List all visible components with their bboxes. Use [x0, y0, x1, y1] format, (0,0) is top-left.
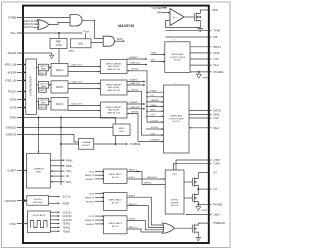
svg-text:BLANK3: BLANK3 — [86, 223, 95, 226]
box 4-LEVEL DECODE — [27, 196, 49, 206]
svg-text:DL2: DL2 — [214, 126, 220, 130]
wire FAULT2 out — [127, 206, 163, 228]
svg-text:OUTPUT DRIVE: OUTPUT DRIVE — [168, 118, 184, 120]
wire CLOCK in — [147, 121, 164, 123]
wire DACOUT2 — [68, 83, 100, 85]
wire TARGET2 in — [95, 197, 104, 199]
node junction on PLL wire — [58, 32, 60, 34]
box REF generator — [50, 39, 67, 49]
svg-text:CLOCK1: CLOCK1 — [63, 212, 73, 214]
svg-text:OUTPUT DRIVE: OUTPUT DRIVE — [170, 57, 186, 59]
svg-text:BLOCK: BLOCK — [173, 121, 181, 123]
svg-text:FB: FB — [214, 35, 218, 39]
svg-text:BLANK3: BLANK3 — [130, 101, 139, 104]
svg-text:DXP: DXP — [151, 60, 156, 62]
pin PGND1 — [190, 71, 212, 73]
wire RGE3 out — [127, 221, 163, 230]
pin THM — [166, 29, 212, 31]
wire REF box down to DAC1 — [58, 49, 60, 64]
ground M0 source — [197, 28, 203, 30]
svg-text:PLL: PLL — [11, 31, 17, 35]
wire DXP_ in — [51, 181, 65, 183]
svg-text:IN: IN — [214, 171, 217, 175]
svg-text:RGE2: RGE2 — [129, 195, 136, 197]
svg-text:AGND: AGND — [7, 51, 17, 55]
svg-text:BLANK2: BLANK2 — [86, 200, 95, 203]
box DAC3 — [51, 98, 68, 110]
svg-text:TMS: TMS — [10, 116, 16, 120]
svg-text:RGE3: RGE3 — [129, 219, 136, 221]
svg-text:SMPS2 TARGET: SMPS2 TARGET — [106, 83, 123, 86]
svg-text:DAC3: DAC3 — [56, 102, 63, 106]
svg-text:ILIMIT: ILIMIT — [7, 169, 16, 173]
svg-text:T(ON)2: T(ON)2 — [63, 228, 71, 230]
svg-text:ILIM: ILIM — [151, 133, 155, 135]
svg-text:TARGET: TARGET — [151, 99, 160, 102]
svg-text:LBO: LBO — [214, 213, 221, 217]
wire T-ANLG(3) out — [127, 108, 145, 110]
svg-text:CURRENT: CURRENT — [33, 169, 44, 171]
svg-text:LX2: LX2 — [214, 116, 220, 120]
svg-text:OUT3: OUT3 — [88, 216, 94, 218]
svg-text:TARGET1: TARGET1 — [85, 174, 95, 177]
wire PWM_ out b — [50, 165, 64, 167]
svg-text:T-ANLG(1): T-ANLG(1) — [130, 62, 141, 65]
oscillator waveform glyph — [31, 221, 48, 228]
wire NML in — [146, 110, 164, 112]
svg-text:SMPS3 TARGET: SMPS3 TARGET — [106, 106, 123, 109]
svg-text:CLOCK: CLOCK — [151, 120, 159, 122]
svg-text:RATE BLOCK: RATE BLOCK — [107, 68, 121, 71]
wire GNDS3 in — [131, 114, 138, 142]
svg-text:BLOCK: BLOCK — [112, 202, 119, 204]
ground M3 source — [195, 237, 201, 239]
pin CSN — [174, 163, 212, 170]
svg-text:OSCILLATOR: OSCILLATOR — [32, 214, 45, 217]
svg-text:DACOUT2: DACOUT2 — [72, 81, 83, 84]
svg-text:WAVE: WAVE — [151, 104, 158, 107]
wire U2 out down to AND U3 — [82, 20, 103, 38]
wire osc out TON2 — [50, 226, 59, 228]
svg-text:PGND: PGND — [214, 203, 224, 207]
pin FB — [166, 36, 212, 38]
wire PWM_ out a — [50, 159, 64, 161]
svg-text:AD_: AD_ — [66, 175, 71, 178]
svg-text:TARGET3: TARGET3 — [147, 176, 158, 179]
transistor M2 — [184, 197, 192, 199]
wire bus vertical x61 — [60, 118, 62, 186]
wire TARGET1 in — [95, 174, 104, 176]
wire decode out SYNC — [49, 196, 60, 198]
svg-text:BLANK1: BLANK1 — [130, 56, 139, 59]
svg-text:SXD: SXD — [10, 98, 17, 102]
transistor M1 — [184, 181, 192, 183]
wire WAVE in — [146, 106, 164, 108]
box SMPS2 output drive block — [164, 85, 190, 153]
pin DH1 — [190, 52, 212, 54]
svg-text:AND SLEW: AND SLEW — [108, 65, 119, 68]
box DAC2 — [51, 81, 68, 93]
svg-text:COMBINE: COMBINE — [150, 140, 161, 142]
svg-text:T-ANLG(2): T-ANLG(2) — [130, 82, 141, 85]
wire GNDS1 in — [131, 71, 147, 122]
wire BLANK1 out — [127, 58, 147, 60]
svg-text:COMBINE: COMBINE — [130, 144, 141, 146]
wire BLANK1 in — [95, 178, 104, 180]
svg-text:SMPS1 FAULT: SMPS1 FAULT — [109, 173, 123, 176]
svg-text:GNDS2: GNDS2 — [6, 126, 17, 130]
op-amp U4 — [170, 9, 184, 26]
svg-text:SMPS1 TARGET: SMPS1 TARGET — [106, 62, 123, 65]
box GNDS BUS — [113, 124, 130, 136]
svg-text:RATE BLOCK: RATE BLOCK — [107, 111, 121, 114]
svg-text:5.5V REG: 5.5V REG — [152, 7, 163, 10]
wire AGND — [17, 52, 52, 54]
svg-text:CSA_: CSA_ — [66, 170, 73, 173]
svg-text:BLOCK: BLOCK — [174, 60, 182, 62]
svg-text:SHIFT: SHIFT — [41, 103, 47, 105]
svg-text:STBB: STBB — [8, 16, 16, 20]
box DAC — [71, 39, 92, 48]
svg-text:REF: REF — [157, 12, 162, 15]
svg-text:SMPS2 FAULT: SMPS2 FAULT — [109, 198, 123, 201]
box SMPS3 fault block — [104, 216, 127, 234]
svg-text:MAX5745: MAX5745 — [118, 24, 135, 28]
wire CSA_ in — [51, 170, 65, 172]
svg-text:SLOPE: SLOPE — [151, 127, 159, 129]
wire PWM_ out of SMPS2 block — [146, 91, 164, 93]
svg-text:PWR: PWR — [202, 78, 208, 80]
svg-text:VDL: VDL — [213, 8, 219, 12]
svg-text:RGE1: RGE1 — [129, 177, 136, 179]
svg-text:PGND1: PGND1 — [214, 70, 225, 74]
svg-text:AND SLEW: AND SLEW — [108, 86, 119, 89]
chip boundary (IC outline) — [23, 6, 209, 243]
wire interface to shift1 — [36, 67, 38, 69]
wire interface to shift2 — [36, 84, 38, 86]
wire CS_ in — [146, 96, 164, 98]
svg-text:SMPS2 AND: SMPS2 AND — [170, 115, 182, 118]
svg-text:DXP_: DXP_ — [66, 182, 73, 184]
svg-text:PWR: PWR — [202, 210, 208, 212]
svg-text:AND SLEW: AND SLEW — [108, 109, 119, 112]
box SMPS2 target slew block — [101, 80, 128, 95]
wire COMBINE arrow — [115, 143, 127, 145]
svg-text:FAULT3: FAULT3 — [129, 226, 138, 229]
svg-text:ADDR: ADDR — [7, 71, 16, 75]
wire shift1 to DAC1 — [49, 67, 51, 69]
svg-text:TARGET2: TARGET2 — [85, 197, 95, 200]
transistor M0 — [193, 13, 195, 21]
wire osc out CLOCK3 — [50, 219, 59, 221]
ground AGND symbol — [51, 53, 53, 55]
wire op-amp out to gate M0 — [184, 16, 194, 18]
wire osc out TON1 — [50, 223, 59, 225]
wire STBB to AND U2 — [17, 16, 70, 18]
svg-text:DH1: DH1 — [214, 51, 220, 55]
pin DL2 — [189, 127, 211, 129]
svg-text:AGND: AGND — [69, 50, 75, 53]
wire FAULT1 out — [127, 172, 165, 185]
svg-text:RATE BLOCK: RATE BLOCK — [107, 89, 121, 92]
wire PWM_ into SMPS1 block — [151, 54, 165, 56]
box SMPS1 target slew block — [101, 60, 128, 74]
wire RGE2 out — [127, 197, 163, 225]
svg-text:GNDS1: GNDS1 — [131, 69, 139, 71]
pin BST2 — [189, 110, 212, 112]
svg-text:PWM_: PWM_ — [151, 90, 158, 92]
svg-text:SMPS1 AND: SMPS1 AND — [171, 53, 183, 56]
box SMPS3 target slew block — [101, 102, 128, 118]
wire TMS across — [17, 118, 116, 125]
svg-text:DETECT: DETECT — [82, 145, 91, 147]
svg-text:SYD: SYD — [10, 106, 17, 110]
svg-text:DACOUT3: DACOUT3 — [72, 103, 83, 106]
wire gnds bus down to combine node — [114, 136, 116, 145]
wire feedback loop — [166, 21, 201, 28]
svg-text:GNDS: GNDS — [118, 128, 125, 130]
or-gate U5 fault combine — [163, 223, 175, 233]
svg-text:SMPS3 FAULT: SMPS3 FAULT — [109, 222, 123, 225]
svg-text:BLOCK: BLOCK — [112, 177, 119, 179]
wire DXP in — [146, 115, 164, 117]
wire DAC box to AND U3 — [91, 41, 103, 43]
svg-text:SHIFT3: SHIFT3 — [39, 107, 46, 109]
box 1-BIT I/O SHIFT2 — [38, 82, 48, 89]
pin LBO — [186, 214, 212, 216]
and-gate U3 RUN — [103, 36, 114, 46]
svg-text:DAC1: DAC1 — [56, 68, 63, 72]
box interface (rotated text) — [26, 59, 37, 114]
svg-text:GNDS3: GNDS3 — [131, 112, 139, 114]
wire shift3 to DAC3 — [49, 101, 51, 103]
pin DH2 — [189, 113, 212, 115]
box 1-BIT I/O SHIFT3 — [38, 98, 48, 105]
wire GNDS2 in — [131, 91, 142, 135]
box 1-BIT I/O SHIFT1 — [38, 64, 48, 71]
wire shift2 to DAC2 — [49, 84, 51, 86]
or-gate U1 fault OR — [38, 20, 49, 30]
svg-text:SHIFT1: SHIFT1 — [39, 73, 46, 75]
svg-text:PWM_: PWM_ — [66, 166, 74, 168]
svg-text:WID1: WID1 — [89, 172, 95, 174]
wire combine detect input — [61, 143, 79, 145]
svg-text:T(ON)3: T(ON)3 — [63, 231, 71, 233]
svg-text:INIT2: INIT2 — [89, 193, 95, 195]
wire FAULT3 out — [127, 229, 163, 232]
pin LX3 — [198, 188, 211, 190]
svg-text:T(ON)1: T(ON)1 — [63, 224, 71, 226]
box OSCILLATOR — [28, 211, 51, 233]
wire OUT3 in — [95, 215, 104, 217]
wire U5 out to gate M3 — [174, 227, 192, 229]
svg-text:DACOUT1: DACOUT1 — [72, 64, 83, 67]
transistor M3 — [191, 225, 193, 233]
pin CSP — [176, 160, 212, 170]
wire FAULT2 to OR U1 — [34, 23, 38, 25]
svg-text:CLOCK2: CLOCK2 — [63, 216, 73, 218]
wire BLANK3 in — [95, 223, 104, 225]
svg-text:SPS_LB: SPS_LB — [5, 63, 16, 67]
svg-text:BLOCK: BLOCK — [171, 205, 179, 207]
pin DL1 — [190, 64, 212, 66]
svg-text:FAULT1: FAULT1 — [129, 169, 138, 172]
svg-text:PWM_: PWM_ — [66, 160, 74, 162]
svg-text:T-ANLG(3): T-ANLG(3) — [130, 106, 141, 109]
svg-text:LX: LX — [214, 187, 218, 191]
svg-text:SHIFT: SHIFT — [41, 86, 47, 88]
box DAC1 — [51, 63, 68, 76]
wire BLANK3 out — [127, 103, 145, 105]
svg-text:BLANK1: BLANK1 — [86, 178, 95, 181]
svg-text:DAC: DAC — [78, 42, 84, 46]
wire AD_ in — [51, 175, 65, 177]
wire current limit top to TMS wire — [38, 118, 40, 154]
svg-text:CONVERSION I/F: CONVERSION I/F — [30, 75, 33, 96]
svg-text:DECODE: DECODE — [33, 202, 43, 204]
svg-text:PWM_: PWM_ — [151, 53, 158, 55]
wire osc out CLOCK1 — [50, 211, 59, 213]
wire decode out MODE — [49, 202, 60, 204]
svg-text:BUS: BUS — [119, 131, 124, 133]
svg-text:COMBINE: COMBINE — [81, 142, 91, 144]
node LX3 junction — [197, 188, 199, 190]
svg-text:TARGET3: TARGET3 — [85, 219, 95, 222]
wire COMBINE in — [138, 140, 164, 142]
svg-text:SY3_IN: SY3_IN — [63, 197, 71, 199]
wire DACOUT3 — [68, 105, 100, 107]
svg-text:DL1: DL1 — [214, 63, 220, 67]
svg-text:CLOCK3: CLOCK3 — [63, 220, 73, 222]
box COMBINE DETECT — [79, 139, 94, 150]
wire interface to shift3 — [36, 101, 38, 103]
svg-text:OPTION: OPTION — [4, 199, 16, 203]
svg-text:FAULT2: FAULT2 — [129, 203, 138, 206]
wire osc out TON3 — [50, 230, 59, 232]
wire OUT2 in — [95, 192, 104, 194]
wire U3 output RUN — [115, 40, 125, 42]
svg-text:BLANK2: BLANK2 — [130, 79, 139, 82]
wire OUT1 in — [95, 171, 104, 173]
wire PLL to VREF node — [17, 32, 83, 34]
svg-text:SHIFT2: SHIFT2 — [39, 90, 46, 92]
wire TARGET in — [146, 101, 164, 103]
svg-text:DRIVER: DRIVER — [171, 202, 179, 204]
ground PGND2 — [196, 207, 201, 211]
box SMPS2 fault block — [104, 192, 127, 210]
svg-text:LX1: LX1 — [214, 57, 220, 61]
wire SLOPE in — [146, 128, 164, 130]
svg-text:CSN: CSN — [214, 161, 220, 165]
svg-text:BLOCK: BLOCK — [112, 226, 119, 228]
svg-text:CLIM: CLIM — [56, 44, 62, 47]
wire BLANK2 in — [95, 200, 104, 202]
wire DXP into SMPS1 block — [151, 61, 165, 63]
and-gate U2 — [70, 15, 82, 26]
box CURRENT LIMIT — [27, 153, 51, 188]
svg-text:FAULT3: FAULT3 — [24, 25, 34, 29]
box SMPS1 output drive block — [165, 42, 190, 73]
wire U1 out to AND U2 — [49, 22, 70, 24]
svg-text:DAC2: DAC2 — [56, 85, 63, 89]
svg-text:SMPS2: SMPS2 — [171, 200, 179, 202]
svg-text:BST1: BST1 — [214, 45, 222, 49]
wire VREF down to DAC box — [85, 33, 87, 39]
ground PGND1 — [198, 71, 200, 73]
wire T-ANLG(1) out — [127, 64, 147, 66]
svg-text:PWRGD: PWRGD — [214, 221, 226, 225]
svg-text:4-LEVEL: 4-LEVEL — [33, 199, 43, 201]
svg-text:GNDS2: GNDS2 — [131, 90, 139, 92]
svg-text:ADDR: ADDR — [63, 202, 70, 205]
svg-text:OSC: OSC — [9, 222, 16, 226]
svg-text:NML: NML — [151, 109, 156, 111]
svg-text:LIMIT: LIMIT — [36, 172, 42, 174]
svg-text:FSD_IN: FSD_IN — [5, 79, 16, 83]
wire TARGET3 into driver block — [127, 178, 165, 180]
pin LX2 — [189, 117, 212, 119]
wire BLANK2 out — [127, 81, 145, 83]
svg-text:THM: THM — [214, 28, 221, 32]
wire DACOUT1 — [68, 66, 100, 68]
pin PGND2 — [198, 203, 211, 205]
wire TARGET3 in — [95, 219, 104, 221]
wire T-ANLG(2) out — [127, 84, 145, 86]
pin LX1 — [190, 58, 212, 60]
box SMPS1 fault block — [104, 169, 127, 183]
wire junction down to REF box — [58, 33, 60, 39]
svg-text:PCLK: PCLK — [8, 90, 16, 94]
svg-text:RUN: RUN — [117, 38, 123, 41]
svg-text:SHIFT: SHIFT — [41, 69, 47, 71]
svg-text:CSP1: CSP1 — [172, 174, 178, 176]
wire FAULT3 to OR U1 — [34, 26, 39, 28]
svg-text:DXP: DXP — [151, 115, 156, 117]
outer figure border — [1, 2, 230, 248]
pin BST1 — [190, 46, 212, 48]
svg-text:GNDS3: GNDS3 — [6, 133, 17, 137]
wire ILIM in — [142, 134, 164, 136]
wire FAULT1 to OR U1 — [34, 20, 39, 22]
box SMPS2 driver block — [165, 170, 184, 214]
wire combine detect out — [94, 143, 116, 145]
wire osc out CLOCK2 — [50, 215, 59, 217]
